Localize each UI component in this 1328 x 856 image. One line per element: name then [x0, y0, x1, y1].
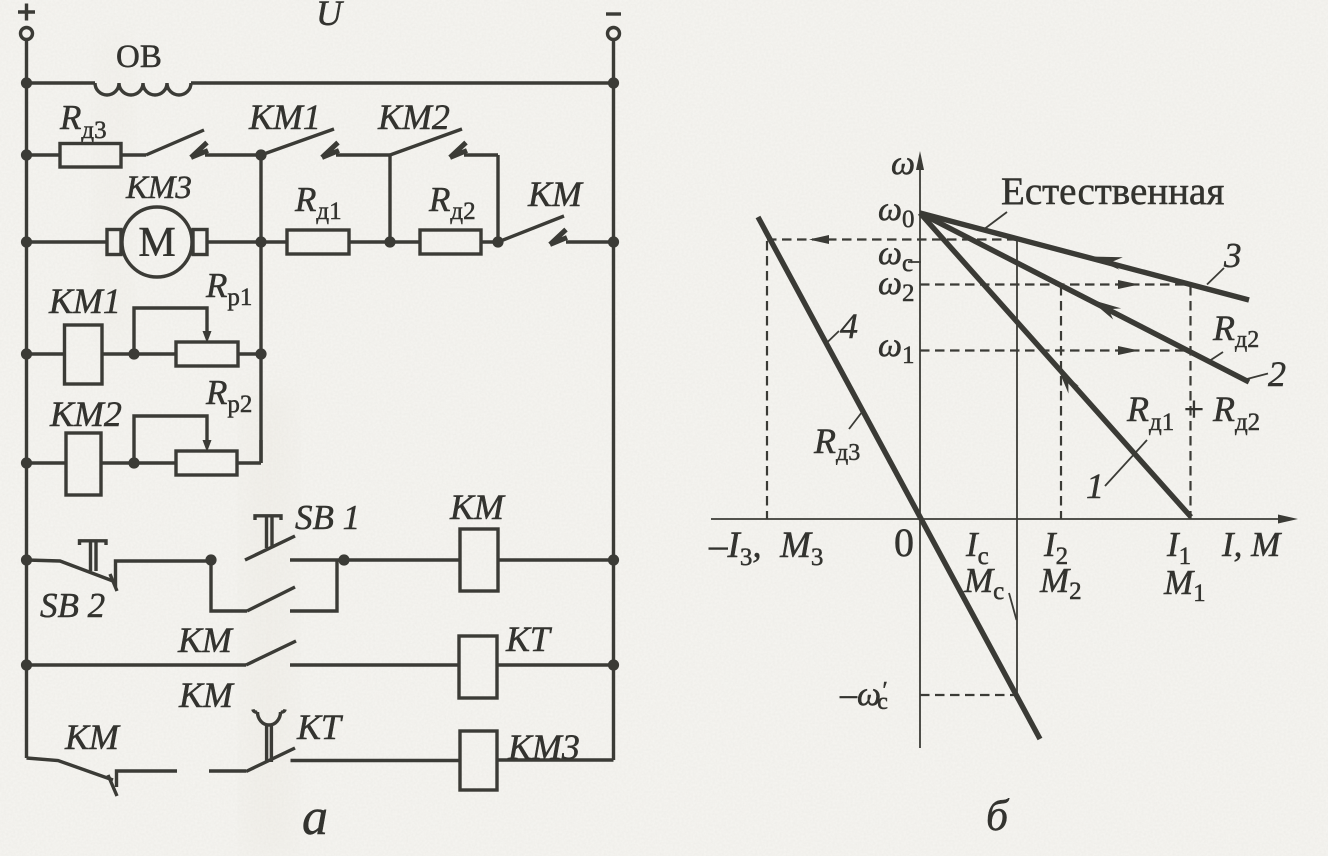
svg-text:–I3, М3: –I3, М3: [708, 525, 823, 571]
svg-text:U: U: [316, 0, 344, 33]
coil KM3: [460, 731, 614, 790]
label KT coil: [505, 619, 553, 659]
button SB2 fixed contact: [116, 561, 212, 587]
label I_c: [965, 525, 989, 570]
svg-text:КМ: КМ: [449, 487, 506, 527]
contact KM2 blade: [390, 129, 462, 155]
wire motor to node: [207, 240, 287, 243]
motor M circle: [122, 207, 192, 277]
svg-text:SB 2: SB 2: [40, 586, 105, 625]
label 3: [1223, 236, 1242, 275]
label KM1 coil: [48, 281, 121, 321]
node: right bus / OB line: [608, 77, 619, 88]
line 2 characteristic: [920, 213, 1249, 382]
svg-text:ОВ: ОВ: [116, 39, 162, 75]
dashed line -omega'c level: [920, 694, 1014, 696]
svg-text:1: 1: [1086, 466, 1104, 506]
label 0 origin: [894, 520, 914, 565]
pointer 3 to line 3: [1207, 268, 1224, 285]
arrow right on omega2 dash: [1118, 280, 1139, 289]
omega axis: [916, 151, 924, 748]
button SB2 blade: [27, 560, 114, 581]
wire KM to right bus: [566, 240, 614, 243]
label KT time contact: [296, 707, 344, 747]
coil KM2: [27, 433, 177, 495]
contact KM arrow: [550, 230, 567, 245]
label I, M axis: [1221, 525, 1282, 564]
label M_c: [963, 561, 1004, 605]
label I_2: [1043, 525, 1068, 570]
contact KM3 arrow: [191, 143, 208, 158]
label KM contact KT rung: [178, 675, 235, 715]
button SB2 actuator: [80, 541, 107, 571]
resistor R_d3: [27, 144, 147, 168]
svg-text:М: М: [138, 220, 175, 266]
svg-text:КМ2: КМ2: [377, 97, 450, 137]
dashed vertical I_2: [1060, 286, 1062, 519]
pointer 2 to line 2: [1247, 374, 1268, 380]
label omega axis: [891, 145, 915, 182]
wire KM3 rung segment: [209, 769, 246, 772]
dashed line omega2 level: [920, 283, 1191, 285]
svg-text:Естественная: Естественная: [1001, 170, 1224, 213]
label omega 2: [878, 265, 915, 307]
dashed line omega0 level: [767, 238, 1016, 240]
arrow on line 2: [1089, 299, 1121, 320]
node left bus KM1 coil rung: [21, 348, 32, 359]
label R_d3: [59, 98, 107, 144]
label R_d2 (graph): [1212, 308, 1259, 353]
wire KM aux branch right: [290, 560, 337, 611]
button SB2 blade tick: [110, 574, 117, 591]
line 3 natural characteristic: [920, 213, 1249, 300]
node left bus armature rung: [21, 236, 32, 247]
wire left bus to motor: [27, 240, 108, 243]
svg-text:КМ: КМ: [178, 675, 235, 715]
label KM2 contact: [377, 97, 450, 137]
label 2: [1268, 354, 1286, 394]
inductor OB (field winding): [27, 83, 614, 95]
wire KM2 to corner: [464, 153, 498, 156]
pointer 4 to line 4: [826, 331, 839, 344]
wire vertical x390: [388, 155, 391, 242]
contact KM blade tick (KM3 rung): [108, 775, 117, 796]
wire vertical x261: [259, 155, 262, 463]
arrow into R_p1: [203, 331, 212, 343]
svg-text:SB 1: SB 1: [295, 498, 360, 537]
terminal circle left (+): [21, 28, 33, 40]
wire R_p2 bypass loop: [134, 416, 207, 463]
label 1: [1086, 466, 1104, 506]
node left bus SB rung: [21, 554, 32, 565]
line 1 characteristic: [920, 213, 1191, 517]
svg-text:КМ1: КМ1: [48, 281, 121, 321]
resistor R_d1: [287, 230, 420, 254]
svg-text:КМ1: КМ1: [248, 97, 321, 137]
svg-text:3: 3: [1223, 236, 1242, 275]
dashed vertical at -I3: [766, 241, 768, 519]
svg-text:КМ2: КМ2: [49, 394, 122, 434]
coil KT: [459, 636, 614, 698]
dashed vertical I_1: [1189, 286, 1191, 519]
svg-text:4: 4: [840, 306, 858, 346]
wire KM1 to corner: [336, 153, 390, 156]
svg-text:КМ: КМ: [64, 717, 121, 757]
node armature x498: [492, 236, 503, 247]
label KM1 contact: [248, 97, 321, 137]
label I_1: [1166, 525, 1191, 570]
minus terminal symbol -: [606, 12, 621, 15]
x axis I,M: [711, 515, 1298, 524]
label -omega'c: [839, 676, 888, 715]
wire vertical x498: [496, 155, 499, 242]
wire left bus: [25, 40, 28, 759]
contact KM fixed contact (KM3 rung): [117, 771, 178, 787]
vertical line I_c: [1016, 239, 1018, 695]
label -I3, M3: [708, 525, 823, 571]
label M_2: [1039, 561, 1082, 605]
label R_d1 + R_d2: [1126, 389, 1260, 436]
label Estestvennaya: [1001, 170, 1224, 213]
coil KM: [460, 529, 614, 591]
dashed line omega1 level: [920, 349, 1191, 351]
label KM2 coil: [49, 394, 122, 434]
label OB field winding: [116, 39, 162, 75]
label 4: [840, 306, 858, 346]
wire KT contact to KM3 coil: [291, 759, 461, 762]
node R_p2 junction: [128, 457, 139, 468]
svg-text:КМ: КМ: [527, 174, 584, 214]
label omega 1: [878, 327, 915, 369]
pointer Estestvennaya to line 3: [985, 212, 1007, 229]
node: left bus rung R_d3: [21, 149, 32, 160]
motor brush right: [193, 230, 207, 255]
label SB2: [40, 586, 105, 625]
svg-text:КТ: КТ: [296, 707, 344, 747]
node left bus KM2 coil rung: [21, 457, 32, 468]
label KM3 coil: [507, 727, 580, 767]
plus terminal symbol +: [18, 4, 35, 21]
terminal circle right (-): [608, 28, 620, 40]
wire KM aux branch down-left: [211, 560, 247, 611]
motor brush left: [107, 230, 121, 255]
svg-text:б: б: [986, 791, 1010, 840]
arrow right on omega1 dash: [1118, 346, 1139, 355]
button SB1 blade: [245, 536, 295, 560]
wire right bus: [612, 40, 615, 761]
arrow left on omega0 dash: [809, 235, 829, 244]
node left bus KT rung: [21, 659, 32, 670]
node armature x261: [255, 236, 266, 247]
button SB1 actuator: [255, 516, 281, 548]
label R_p2: [205, 373, 252, 418]
contact KM1 arrow: [322, 143, 339, 158]
resistor R_d2: [420, 230, 498, 254]
label KM3 motor contactor: [125, 170, 192, 206]
pointer R_d2 to line 2: [1207, 352, 1223, 363]
label omega0: [878, 191, 915, 233]
contact KM3 blade (R_d3 rung): [146, 130, 204, 155]
pointer R_d3 to line 4: [849, 412, 862, 429]
resistor R_p2: [176, 440, 261, 475]
contact KM1 blade: [261, 129, 334, 155]
node x261 R_p1 rung: [255, 348, 266, 359]
label U: [316, 0, 344, 33]
svg-text:ω: ω: [891, 145, 915, 182]
arrow into R_p2: [203, 440, 212, 452]
label KM aux: [177, 620, 234, 660]
svg-text:КМ3: КМ3: [125, 170, 192, 206]
pointer M_c to vertical: [1009, 593, 1017, 620]
label SB1: [295, 498, 360, 537]
contact KM blade (armature): [498, 216, 564, 242]
label b (graph): [986, 791, 1010, 840]
label R_p1: [205, 266, 252, 311]
node armature x390: [384, 236, 395, 247]
label M_1: [1163, 563, 1206, 607]
wire SB1 right: [290, 558, 344, 561]
wire R_p1 bypass loop: [134, 308, 207, 354]
tick omega c: [908, 261, 921, 263]
contact KM aux blade: [247, 587, 295, 611]
node SB1 right junction: [338, 554, 349, 565]
label R_d1: [294, 180, 342, 225]
resistor R_p1: [176, 342, 261, 366]
node junction KM1 pivot: [255, 149, 266, 160]
label omega c: [878, 235, 913, 277]
contact KT time blade: [246, 748, 295, 772]
arrow on line 3: [1089, 257, 1123, 270]
label KM contact KM3 rung: [64, 717, 121, 757]
node right bus armature: [608, 236, 619, 247]
svg-text:2: 2: [1268, 354, 1286, 394]
svg-text:КМ3: КМ3: [507, 727, 580, 767]
contact KM blade (KT rung): [246, 641, 296, 665]
wire KT rung left: [27, 663, 247, 666]
contact KM2 arrow: [450, 143, 467, 158]
svg-text:–ω′с: –ω′с: [839, 676, 888, 715]
node SB1 left junction: [205, 554, 216, 565]
svg-text:КТ: КТ: [505, 619, 553, 659]
label R_d3 (graph): [813, 421, 860, 466]
contact KM blade (KM3 rung): [27, 758, 114, 780]
node right bus KM coil rung: [608, 554, 619, 565]
motor M letter: [138, 220, 175, 266]
svg-text:а: а: [302, 789, 328, 846]
arrow on line 1: [1058, 369, 1079, 394]
node right bus KT rung: [608, 659, 619, 670]
svg-text:0: 0: [894, 520, 914, 565]
svg-text:I, М: I, М: [1221, 525, 1282, 564]
wire to KM coil: [344, 558, 460, 561]
node: left bus / OB line: [21, 77, 32, 88]
svg-text:КМ: КМ: [177, 620, 234, 660]
pointer 1 across line 1: [1105, 440, 1147, 486]
contact KT time-delay symbol: [253, 709, 285, 762]
label R_d2: [428, 180, 476, 225]
wire KT rung right: [290, 663, 459, 666]
label KM coil: [449, 487, 506, 527]
label a (schematic): [302, 789, 328, 846]
line 4 braking characteristic: [758, 217, 1040, 739]
node R_p1 junction: [128, 348, 139, 359]
coil KM1: [27, 325, 177, 384]
label KM contact (armature): [527, 174, 584, 214]
wire to node KM1: [205, 153, 261, 156]
